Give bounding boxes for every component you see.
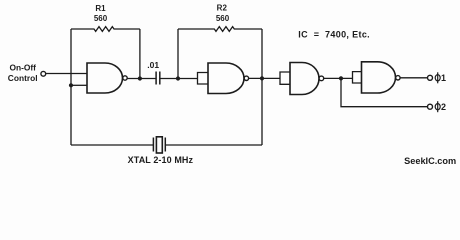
svg-text:560: 560 [216, 14, 230, 23]
svg-text:On-Off: On-Off [9, 63, 36, 73]
svg-text:1: 1 [441, 73, 446, 83]
svg-text:2: 2 [441, 102, 446, 112]
svg-text:SeekIC.com: SeekIC.com [404, 156, 456, 166]
svg-text:R2: R2 [217, 4, 228, 13]
svg-text:XTAL 2-10 MHz: XTAL 2-10 MHz [128, 155, 194, 165]
svg-text:560: 560 [94, 14, 108, 23]
svg-text:.01: .01 [147, 60, 159, 70]
svg-text:IC = 7400, Etc.: IC = 7400, Etc. [298, 30, 370, 40]
svg-text:Control: Control [8, 73, 38, 83]
svg-text:R1: R1 [95, 4, 106, 13]
